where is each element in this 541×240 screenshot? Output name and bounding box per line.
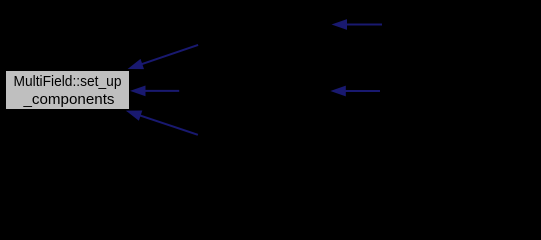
svg-text:_components: _components [22,91,114,108]
svg-text:MultiField::set_up: MultiField::set_up [14,73,122,90]
